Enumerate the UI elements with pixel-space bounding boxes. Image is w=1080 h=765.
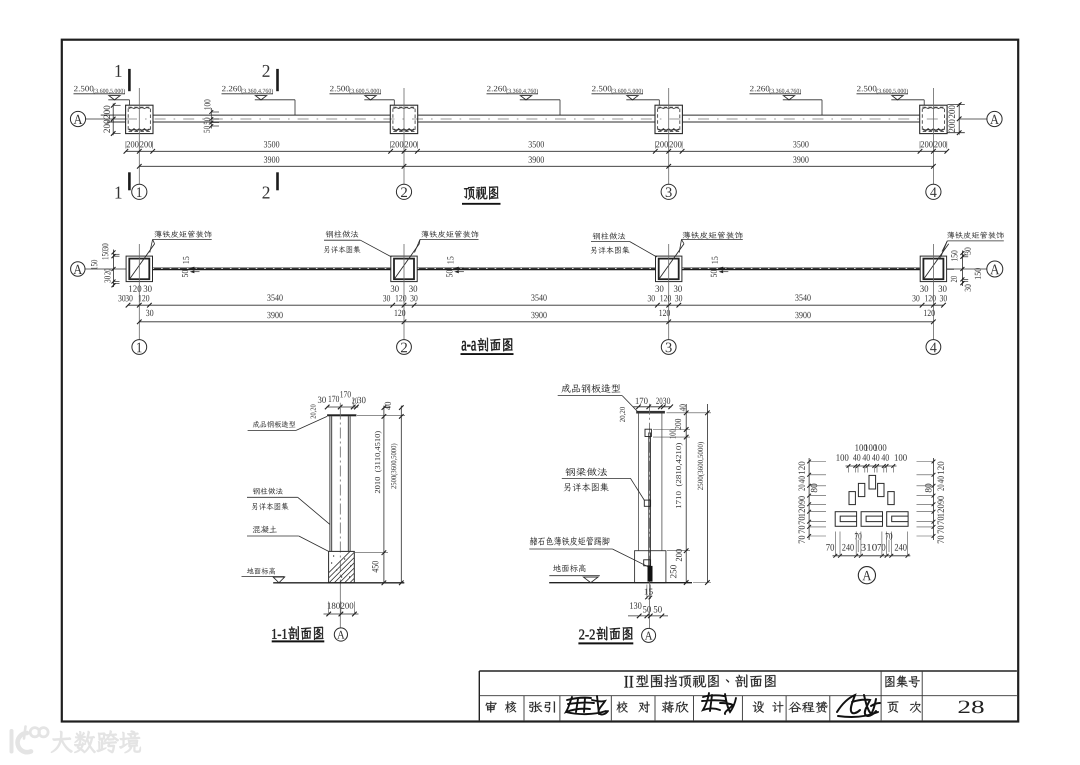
top view: axis line of post 2: [403, 88, 405, 184]
a-a section: post 1 (square tube with diagonal): [126, 244, 155, 282]
a-a section: fence sheet line bay 2: [417, 268, 655, 270]
top view: elevation marker 2.260 bay 3: [750, 86, 823, 115]
top view: axis bubble 2: [396, 184, 411, 199]
section 2-2: cap plate: [636, 411, 665, 414]
a-a section: label 钢柱做法/另详本图集 for post 3: [591, 232, 657, 257]
a-a section: axis line of post 2: [403, 244, 405, 340]
a-a section: vertical dimension chain right of post 4: [951, 248, 981, 292]
section 2-2: detail bubble A: [642, 628, 656, 642]
section 2-2: bottom dimension 130/50/50: [628, 602, 668, 618]
top view: axis line of post 4: [932, 88, 934, 184]
top view: axis bubble 4: [926, 184, 941, 199]
top view: dimension texts 3500 per bay: [264, 141, 809, 147]
detail A: top dimension chain 100/40/100/40/100/40/100/40/100: [836, 444, 906, 472]
top view title 顶视图 with underline: [462, 186, 501, 203]
section 2-2: right outer dimension line 2500: [698, 404, 710, 585]
top view: elevation marker 2.500 at post 2: [330, 86, 395, 105]
top view: vertical dimension 200/200 left of post 1: [104, 103, 121, 136]
section 2-2: label 钢梁做法/另详本图集 with leader: [562, 468, 645, 501]
a-a section: axis bubble 1: [132, 340, 147, 355]
section 1-1: right outer dimension line 2500: [391, 405, 404, 585]
watermark logo (bottom-left): [12, 727, 49, 753]
a-a section: dimension row 3900 (line): [137, 312, 936, 324]
a-a section: fence stub right of post 4: [947, 268, 954, 270]
title block: drawing title II型围挡顶视图、剖面图: [624, 675, 776, 688]
a-a section: post 3 (square tube with diagonal): [656, 244, 685, 282]
detail A: decorative rectangle arc (5 blocks): [849, 475, 894, 504]
section 2-2: top dimension chain 170/20/30: [620, 398, 673, 422]
section 1-1: ground line with level symbol: [273, 577, 404, 583]
section 2-2: right inner dimension line 40/200/100/1710/200/250: [669, 404, 688, 585]
section 1-1: right inner dimension line 40/2010/450: [372, 402, 391, 585]
title block: signature 2: [702, 693, 736, 714]
top view: vertical dimension 200/200 right of post 4 with break symbol: [949, 102, 962, 135]
top view: extension lines right of post 4: [948, 105, 965, 133]
a-a section: fence sheet line bay 3: [682, 268, 920, 270]
section 2-2: tube clip middle: [644, 500, 650, 506]
detail A: left dimension chain: [799, 458, 826, 543]
section 1-1: column (steel post elevation): [330, 416, 350, 551]
section 2-2 title 2-2剖面图 with underline: [578, 627, 633, 644]
a-a section: sheet dimension 50/15 after post 2: [446, 257, 464, 277]
section 1-1 title 1-1剖面图 with underline: [272, 626, 325, 641]
a-a section: sheet dimension 50/15 after post 3: [711, 257, 729, 277]
title block: name 蒋欣: [662, 701, 689, 712]
section 1-1: detail bubble A: [334, 628, 347, 641]
detail A: C-profile ornament 1: [835, 512, 856, 527]
top view: small dimension chain 50/50/100 on fence: [204, 100, 219, 133]
top view: post 2 (square column with sheet decoration): [390, 105, 417, 133]
top view: fence double line bay 2: [418, 115, 655, 122]
section 2-2: ground line with level symbol: [549, 577, 692, 583]
a-a section: post 4 (square tube with diagonal): [920, 244, 949, 282]
drawing sheet border frame: [62, 40, 1018, 722]
detail A: C-profile ornament 3: [887, 512, 908, 527]
top view: elevation marker 2.500 at post 4: [857, 86, 925, 105]
section 2-2: label 成品钢板造型 with leader: [558, 384, 638, 412]
top view: post 4 (square column with sheet decoration): [920, 105, 947, 133]
section 2-2: label 赭石色薄铁皮矩管踢脚 with leader: [529, 537, 647, 567]
title block: name 张引: [529, 701, 555, 712]
top view: grid bubble A (left): [70, 111, 85, 126]
top view: dimension texts 200|200 at posts: [127, 141, 947, 147]
section 2-2: tube clip bottom: [644, 560, 651, 566]
top view: dimension row 3900 (line): [137, 156, 936, 168]
a-a section title a-a剖面图 with underline: [461, 338, 514, 354]
section 2-2: extension lines to right dimensions: [653, 413, 711, 583]
section 2-2: tube clip top: [645, 429, 651, 436]
a-a section: dimension texts 3540 per bay: [267, 294, 810, 300]
a-a section: axis line of post 3: [668, 244, 670, 340]
top view: post 1 (square column with sheet decoration): [126, 105, 153, 133]
title block: label 设计: [753, 701, 784, 712]
section 2-2: fence panel edges: [639, 414, 662, 551]
top view: fence stub left of post 1: [101, 115, 126, 122]
a-a section: post 2 (square tube with diagonal): [391, 244, 420, 282]
section 1-1: bottom dimension 180/200: [324, 602, 359, 617]
top view: axis line of post 3: [668, 88, 670, 184]
detail A: detail bubble A: [858, 567, 875, 584]
title block: label 审核: [486, 701, 517, 712]
a-a section: label 钢柱做法/另详本图集 for post 2: [324, 230, 392, 256]
top view: elevation marker 2.260 bay 2: [487, 86, 561, 115]
top view: axis bubble 1: [132, 184, 147, 199]
a-a section: grid bubble A (right): [987, 261, 1003, 277]
top view: section cut marker 1 (upper): [115, 65, 130, 91]
section 2-2: sheet skirting bar (踢脚): [648, 566, 653, 582]
a-a section: axis line of post 1: [138, 244, 140, 340]
section 2-2: axis line: [649, 404, 651, 583]
a-a section: vertical dimension chain left of post 1: [91, 244, 119, 288]
top view: axis grid line A (horizontal): [85, 118, 126, 120]
detail A: C-profile ornament 2: [861, 512, 882, 527]
section 1-1: concrete base with hatch: [318, 551, 392, 584]
a-a section: axis bubble 2: [397, 340, 412, 355]
section 2-2: pedestal: [635, 551, 666, 583]
a-a section: label 薄铁皮矩管装饰 for post 3: [679, 232, 743, 253]
a-a section: axis bubble 4: [926, 340, 941, 355]
top view: elevation marker 2.260 bay 1: [222, 86, 296, 115]
detail A: bottom dimension chain 70/240/70/310/70/70/240: [826, 532, 910, 558]
top view: post 3 (square column with sheet decoration): [655, 105, 682, 133]
section 1-1: label 混凝土 with leader: [247, 526, 329, 552]
top view: axis bubble 3: [661, 184, 676, 199]
detail A: right dimension chain: [917, 458, 944, 543]
watermark text 大数跨境: [51, 731, 141, 753]
title block: signature 3: [837, 695, 880, 717]
title block: outer lines: [479, 671, 1017, 720]
a-a section: label 薄铁皮矩管装饰 for post 4: [941, 232, 1004, 258]
top view: fence double line bay 3: [682, 115, 919, 122]
section 2-2: bottom dimension 15: [645, 585, 653, 600]
section 1-1: label 地面标高: [242, 567, 285, 576]
section 1-1: label 成品钢板造型 with leader: [248, 416, 328, 430]
a-a section: axis bubble 3: [661, 340, 676, 355]
section 1-1: column axis line: [339, 409, 341, 583]
top view: grid bubble A (right): [987, 111, 1002, 126]
title block: page number 28: [959, 701, 984, 714]
section 2-2: label 地面标高: [549, 564, 600, 576]
a-a section: dimension texts under posts: [118, 286, 947, 317]
top view: section cut marker 2 (upper): [262, 65, 278, 91]
top view: section cut marker 2 (lower): [262, 172, 278, 198]
title block: signature 1: [566, 696, 608, 714]
title block: label 校对: [617, 701, 650, 712]
a-a section: label 薄铁皮矩管装饰 for post 2: [415, 231, 479, 253]
title block: column dividers: [524, 671, 922, 720]
title block: label 图集号: [885, 676, 919, 688]
top view: section cut marker 1 (lower): [115, 172, 130, 198]
a-a section: grid bubble A (left): [71, 262, 85, 276]
title block: name 谷程赟: [789, 701, 827, 712]
top view: elevation marker 2.500 at post 3: [592, 86, 660, 105]
top view: axis line of post 1: [138, 88, 140, 184]
a-a section: sheet dimension 50/15 after post 1: [182, 257, 200, 277]
a-a section: fence sheet line bay 1: [153, 268, 391, 270]
section 1-1: extension lines to right dimensions: [355, 415, 405, 552]
a-a section: label 薄铁皮矩管装饰 for post 1: [150, 231, 212, 253]
a-a section: axis line A: [85, 268, 987, 270]
section 1-1: top dimension chain 30/170/170/20/30: [311, 391, 366, 418]
section 1-1: label 钢柱做法/另详本图集 with leader: [247, 488, 330, 525]
section 1-1: cap plate: [327, 414, 356, 416]
top view: dimension row 200/3500 (line): [124, 141, 950, 153]
top view: fence double line bay 1: [153, 115, 390, 122]
a-a section: dimension row 30/120/3540 (line): [126, 303, 946, 308]
title block: label 页次: [887, 701, 921, 712]
a-a section: axis line of post 4: [932, 244, 934, 340]
top view: elevation marker 2.500 at post 1: [74, 86, 130, 105]
section 2-2: steel tube (矩管) center member: [649, 433, 651, 567]
